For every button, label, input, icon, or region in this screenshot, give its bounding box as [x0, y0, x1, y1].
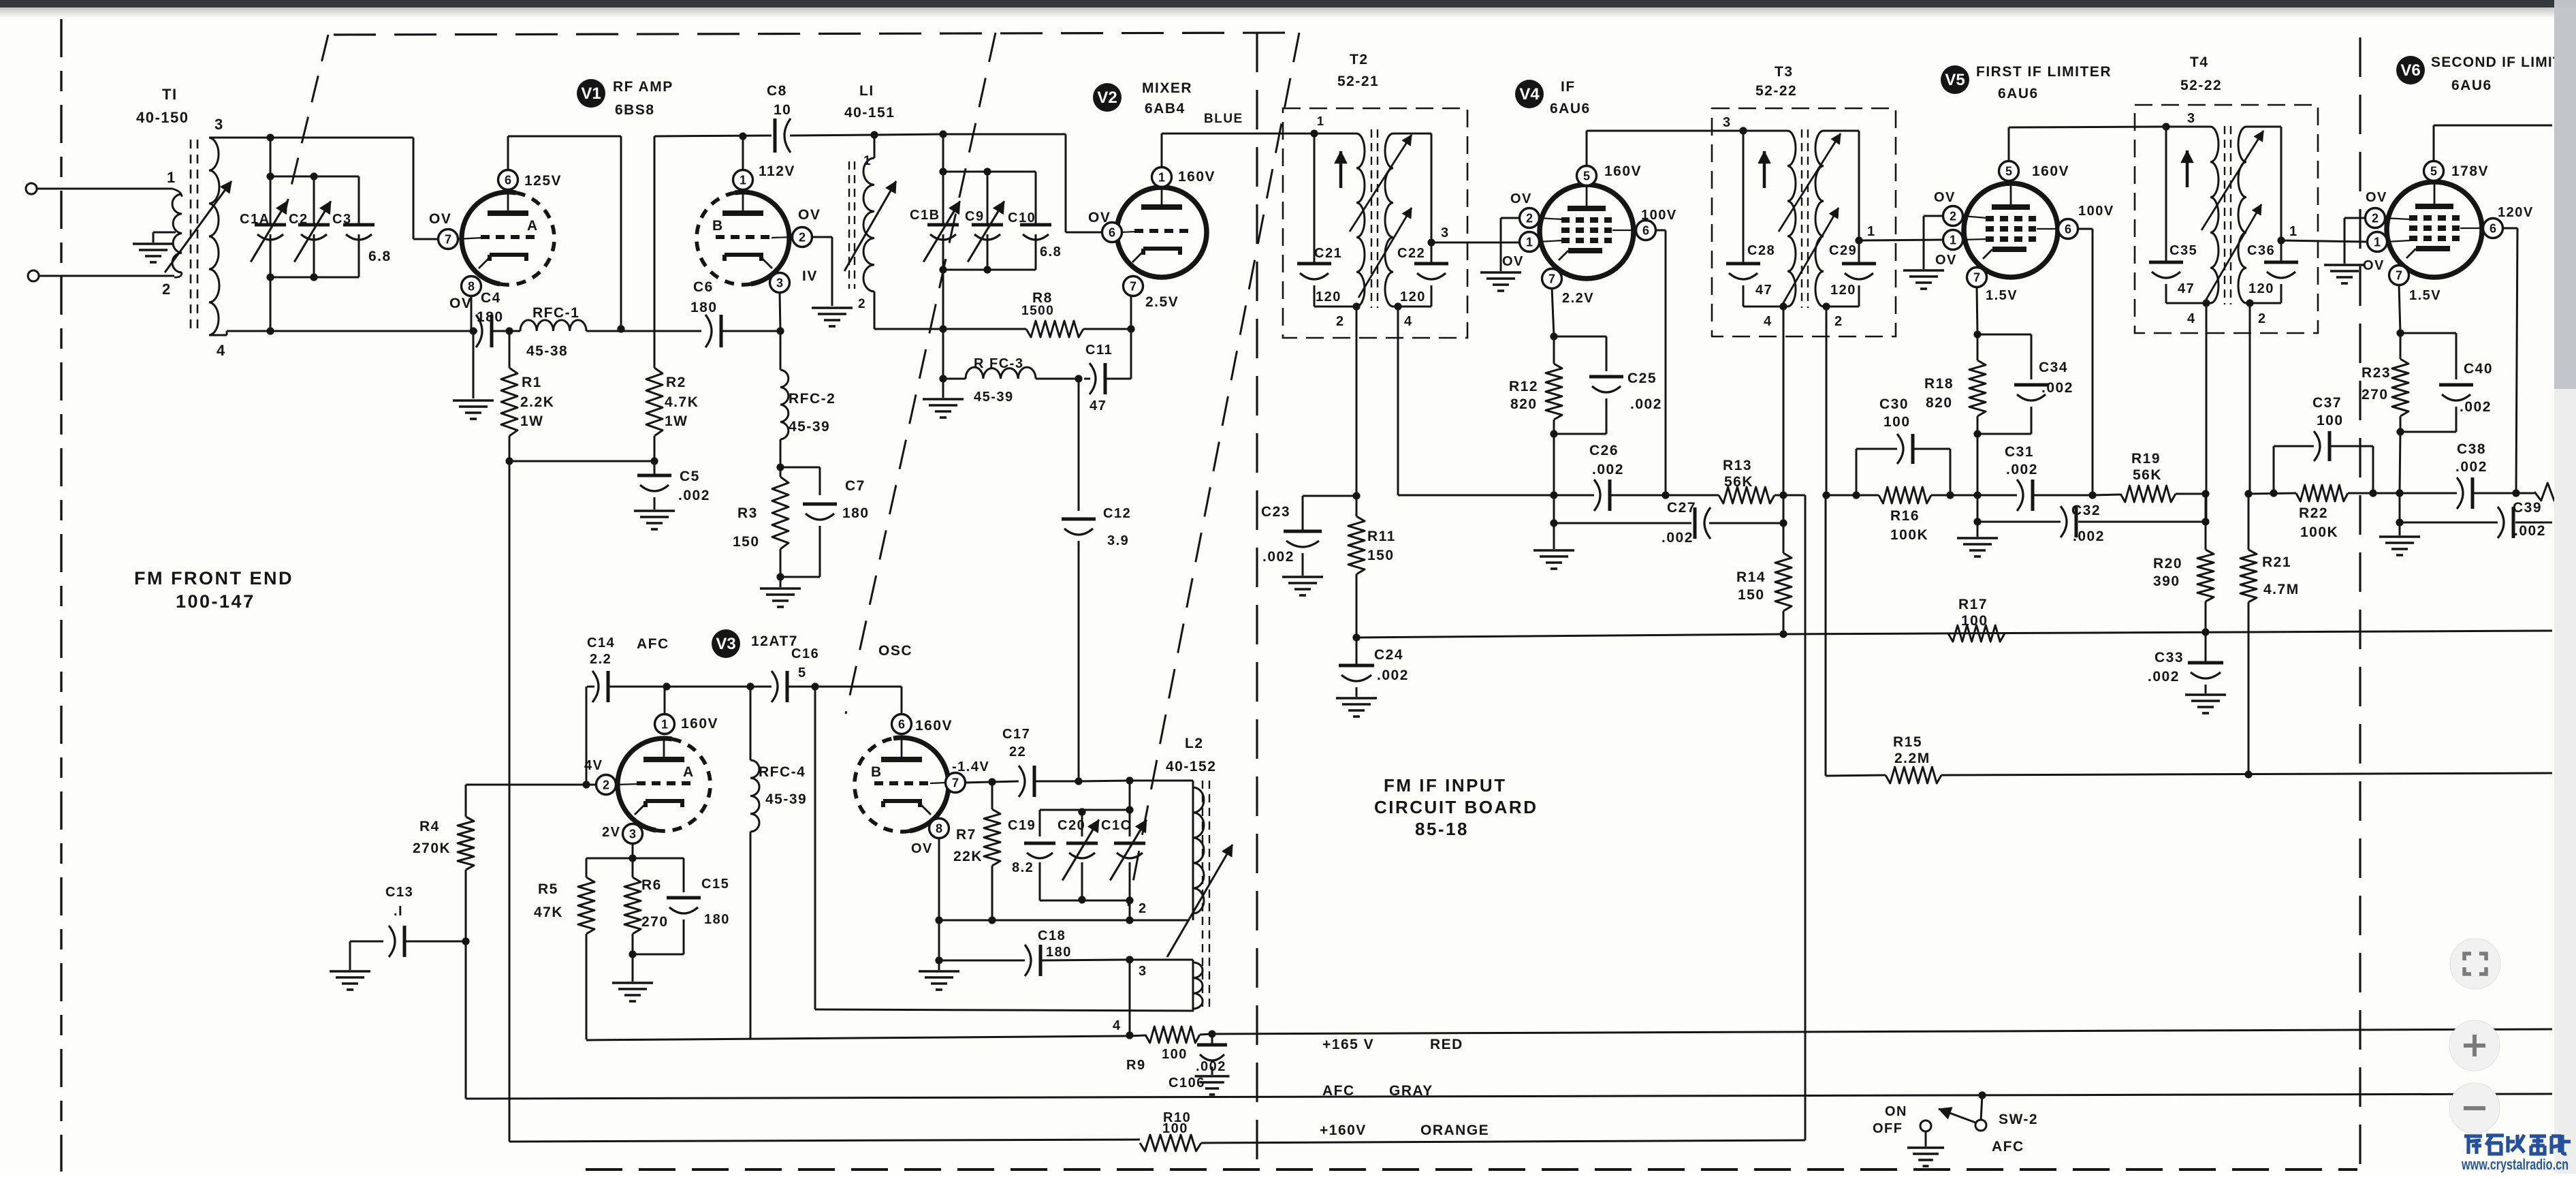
svg-text:.002: .002 [2455, 459, 2487, 475]
pin 5 of V5 [1999, 161, 2019, 181]
svg-text:C34: C34 [2039, 360, 2068, 375]
pin 1 of V6 [2368, 232, 2387, 252]
svg-text:1.5V: 1.5V [2409, 288, 2441, 303]
wire bank bottom down [942, 270, 944, 329]
svg-text:100: 100 [1162, 1121, 1188, 1136]
ground below SW-2 [1907, 1146, 1944, 1149]
ground below R3 [780, 577, 782, 587]
tube V5 [1964, 183, 2058, 277]
svg-text:820: 820 [1510, 396, 1538, 412]
svg-text:OV: OV [449, 296, 472, 311]
svg-text:2: 2 [1526, 212, 1533, 225]
bottom dashed boundary [586, 1168, 2357, 1171]
svg-text:.002: .002 [1377, 668, 1409, 683]
T1 tuning arrow [165, 181, 232, 272]
node R12 top [1550, 332, 1557, 340]
svg-text:OV: OV [2363, 258, 2385, 273]
svg-text:5: 5 [2005, 165, 2012, 178]
svg-text:6BS8: 6BS8 [615, 102, 655, 118]
svg-text:180: 180 [842, 505, 870, 521]
scrollbar track [2554, 0, 2576, 1174]
node R8 right [1127, 325, 1134, 332]
wire grid rail down to V1 pin7 [413, 138, 415, 239]
pin 1 of V2 [1152, 168, 1172, 187]
pin 5 of V6 [2424, 161, 2444, 181]
svg-text:.002: .002 [678, 488, 710, 503]
coil L2 lower winding [1192, 960, 1194, 1011]
svg-text:C1C: C1C [1101, 818, 1132, 833]
svg-text:R14: R14 [1736, 569, 1766, 585]
node T4 pin1 [2277, 236, 2285, 244]
wire R18 bottom down to R16 line [1977, 434, 1979, 495]
svg-text:2: 2 [603, 779, 609, 792]
T4 secondary right side [2280, 127, 2283, 240]
svg-text:+160V: +160V [1320, 1123, 1367, 1138]
svg-text:AFC: AFC [1992, 1139, 2024, 1155]
node C37 right [2369, 489, 2376, 497]
tube V4 badge [1515, 80, 1544, 108]
pin 6 of V4 [1636, 221, 1656, 240]
svg-text:6: 6 [2490, 222, 2496, 236]
V3A grid stub [616, 784, 638, 785]
browser top bar [0, 0, 2554, 7]
svg-text:6: 6 [1109, 226, 1115, 240]
wire V3A plate to C14 node [664, 687, 666, 715]
svg-text:45-38: 45-38 [526, 343, 568, 359]
trimmer bank verticals and bottom wire [942, 172, 944, 225]
svg-text:2: 2 [799, 231, 806, 245]
scrollbar thumb [2554, 7, 2576, 389]
wire T1 pin4 to cathode rail [209, 334, 227, 336]
svg-text:52-22: 52-22 [1755, 83, 1797, 99]
svg-text:C27: C27 [1667, 500, 1696, 516]
svg-text:RED: RED [1430, 1037, 1463, 1052]
node C1B bank top [942, 134, 944, 172]
ground below V1B pin2 [812, 307, 853, 309]
svg-text:ON: ON [1885, 1104, 1907, 1119]
svg-text:GRAY: GRAY [1389, 1083, 1433, 1099]
pin 6 of V5 [2058, 219, 2078, 239]
svg-text:.002: .002 [1630, 396, 1662, 412]
svg-text:.002: .002 [2006, 462, 2038, 477]
node T3 pin2 bottom [1822, 491, 1830, 499]
V1B grid stub [772, 237, 793, 238]
T1 primary center tap wire [153, 232, 176, 234]
pin 8 of V1A [462, 277, 481, 296]
svg-text:C33: C33 [2154, 650, 2184, 665]
ground below V1A cathode [453, 399, 494, 402]
wire V3B grid pin7 to osc line [965, 782, 992, 783]
node C30 right [1946, 491, 1954, 499]
V2 grid stub [1122, 232, 1136, 232]
svg-text:22K: 22K [953, 849, 983, 864]
svg-text:C39: C39 [2513, 500, 2542, 516]
svg-text:LI: LI [859, 83, 874, 99]
svg-text:R11: R11 [1367, 529, 1396, 544]
svg-text:C12: C12 [1103, 506, 1131, 521]
svg-text:1: 1 [2374, 236, 2381, 249]
svg-text:56K: 56K [2133, 467, 2162, 483]
svg-text:150: 150 [1367, 548, 1395, 563]
svg-text:R3: R3 [737, 505, 758, 521]
pin 1 of V4 [1520, 232, 1540, 252]
svg-text:OV: OV [1510, 191, 1532, 206]
svg-text:100: 100 [1883, 414, 1911, 430]
wire pin8 to ground [938, 920, 940, 959]
svg-text:-1.4V: -1.4V [952, 759, 989, 774]
svg-text:C15: C15 [701, 877, 729, 892]
node C32 right [2201, 518, 2209, 525]
T2 pin2 lead down [1356, 307, 1358, 496]
svg-text:1: 1 [661, 718, 668, 732]
svg-text:6: 6 [2065, 223, 2071, 236]
node T2 pin1 blue input [1310, 129, 1318, 137]
svg-text:120: 120 [1830, 283, 1856, 298]
wire V1A cathode to rail [471, 295, 473, 331]
svg-text:.002: .002 [2460, 399, 2492, 415]
pin 6 of V2 [1102, 223, 1122, 242]
svg-text:4: 4 [1113, 1018, 1122, 1033]
wire V5 pin7 down [1977, 286, 1977, 334]
wire +160V bus up to R13 node [1804, 495, 1807, 1140]
svg-text:1: 1 [1526, 236, 1533, 249]
svg-text:45-39: 45-39 [974, 390, 1014, 405]
wire V1B pin2 to ground [811, 236, 832, 238]
svg-text:C9: C9 [965, 209, 985, 224]
node R13 right [1779, 491, 1787, 499]
wire T2 pin4 corner to C26 line [1398, 495, 1554, 497]
svg-text:R19: R19 [2131, 451, 2161, 467]
svg-text:10: 10 [774, 102, 791, 118]
svg-text:.002: .002 [2041, 380, 2073, 396]
svg-text:R2: R2 [666, 375, 686, 390]
svg-text:120: 120 [1400, 289, 1426, 304]
node R16 line right [1973, 491, 1981, 499]
T2 primary winding [1314, 133, 1356, 135]
+160V ORANGE bus wire [509, 1140, 1140, 1142]
svg-text:RFC-1: RFC-1 [532, 305, 579, 321]
wire V6 pin7 down [2399, 284, 2400, 333]
node L2 pin4 on 165V line [1126, 1031, 1133, 1039]
svg-text:C31: C31 [2005, 444, 2034, 460]
svg-text:3: 3 [629, 828, 636, 841]
wire R4 node down to AFC gray bus [465, 941, 467, 1099]
svg-text:.002: .002 [1592, 462, 1624, 477]
svg-text:C35: C35 [2169, 243, 2197, 258]
svg-text:V4: V4 [1519, 85, 1540, 104]
wire C16 grid line [667, 686, 750, 688]
tube V5 badge [1941, 65, 1969, 94]
pin 2 of V3A [597, 775, 616, 795]
svg-text:.002: .002 [2514, 523, 2546, 539]
svg-text:.I: .I [394, 904, 403, 919]
svg-text:C6: C6 [693, 279, 714, 295]
node V6 pin6 bottom [2512, 489, 2519, 497]
V1A grid stub [458, 238, 482, 239]
svg-text:C8: C8 [767, 83, 787, 99]
svg-text:V2: V2 [1097, 89, 1117, 107]
svg-text:C28: C28 [1747, 243, 1775, 258]
svg-text:47: 47 [2178, 281, 2195, 296]
svg-text:V1: V1 [581, 84, 601, 103]
svg-text:C19: C19 [1008, 818, 1036, 833]
T4 pin4 lead down [2206, 303, 2208, 522]
svg-text:1: 1 [1158, 171, 1165, 185]
V3B grid stub [930, 783, 946, 783]
node T2 pin3 [1427, 238, 1435, 246]
svg-text:R18: R18 [1924, 376, 1954, 392]
svg-text:C1B: C1B [910, 208, 940, 223]
ground below C23 [1282, 576, 1323, 578]
node C16 right [811, 682, 818, 690]
svg-text:SW-2: SW-2 [1999, 1112, 2038, 1127]
svg-text:C40: C40 [2464, 361, 2493, 377]
pin 7 of V2 [1124, 277, 1143, 296]
svg-text:R22: R22 [2299, 505, 2328, 521]
node R11 bottom / AGC line left [1352, 633, 1360, 641]
wire C27 line [1550, 519, 1557, 527]
svg-text:1W: 1W [520, 413, 544, 429]
pin 1 of V3A [655, 715, 675, 734]
pin 5 of V4 [1577, 166, 1597, 186]
node C30 left [1852, 491, 1860, 499]
svg-text:390: 390 [2153, 574, 2180, 589]
wire V3A cathode circuit [632, 843, 634, 858]
svg-text:R23: R23 [2362, 365, 2391, 381]
node V3A plate / C14 junction [663, 682, 670, 690]
pin 6 of V3B [892, 715, 912, 734]
pin 1 of V5 [1943, 230, 1963, 250]
svg-text:52-21: 52-21 [1337, 74, 1379, 89]
node R8 line left [939, 325, 947, 332]
T3 primary winding [1743, 130, 1787, 132]
node R12 bottom [1550, 430, 1557, 437]
svg-text:2: 2 [1950, 210, 1956, 223]
svg-text:2: 2 [2258, 311, 2267, 326]
T4 tuning arrows [2201, 131, 2263, 230]
wire C11 to V2 pin7 [1130, 329, 1132, 379]
T2 core [1371, 129, 1372, 308]
ground below V5 pin2 [1903, 269, 1944, 272]
tube V3 triode B [893, 738, 949, 831]
svg-text:270K: 270K [413, 841, 451, 856]
wire V4 pin6 down [1655, 230, 1666, 232]
svg-text:820: 820 [1926, 395, 1953, 411]
svg-text:8: 8 [468, 280, 475, 294]
wire V5 pin2 to ground [1924, 215, 1944, 217]
svg-text:OV: OV [1088, 210, 1111, 225]
T3 secondary winding [1815, 131, 1824, 307]
svg-text:2.2M: 2.2M [1894, 751, 1930, 766]
svg-text:R21: R21 [2262, 554, 2291, 570]
svg-text:100: 100 [2317, 413, 2344, 428]
svg-text:B: B [712, 218, 724, 234]
wire lower rail to L2 bottom [815, 1009, 1194, 1011]
ground below V6 pin2 [2324, 264, 2365, 266]
pin 2 of V1B [793, 227, 812, 247]
node V1B cathode [776, 327, 784, 334]
transformer T4 dashed box [2135, 105, 2318, 333]
svg-text:OV: OV [1502, 254, 1524, 269]
T3 pin2 lead down [1826, 307, 1828, 495]
node R7 top [988, 778, 996, 785]
svg-text:T2: T2 [1350, 52, 1369, 67]
svg-text:C36: C36 [2247, 243, 2275, 258]
node V1A cathode [469, 327, 477, 334]
node L2 pin3 [1126, 956, 1133, 963]
svg-text:OV: OV [911, 841, 933, 856]
svg-text:1: 1 [1317, 114, 1325, 128]
svg-text:85-18: 85-18 [1415, 819, 1469, 839]
svg-text:C5: C5 [680, 469, 700, 484]
wire C16 node down to lower rail [814, 687, 816, 1009]
svg-text:2: 2 [162, 281, 172, 298]
node T2 pin2 [1352, 302, 1360, 310]
svg-text:2: 2 [2372, 212, 2379, 225]
wire V4 plate to T3 [1586, 131, 1588, 167]
svg-text:1.5V: 1.5V [1986, 288, 2018, 303]
transformer T1 secondary winding [209, 138, 219, 335]
svg-text:160V: 160V [1604, 163, 1642, 179]
wire V5 pin6 down [2077, 228, 2093, 230]
svg-text:160V: 160V [681, 716, 718, 732]
svg-text:AFC: AFC [1322, 1083, 1355, 1099]
svg-text:www.crystalradio.cn: www.crystalradio.cn [2461, 1156, 2569, 1173]
T2 tuning arrows [1350, 135, 1412, 232]
svg-text:100K: 100K [2300, 524, 2338, 540]
ground below R18 line node [1977, 522, 1979, 537]
node V5 pin6 bottom [2088, 491, 2096, 499]
svg-text:3: 3 [2187, 111, 2196, 126]
wire V3A grid to R4 [586, 784, 597, 786]
svg-text:RF AMP: RF AMP [613, 79, 673, 95]
svg-text:6AU6: 6AU6 [1550, 101, 1591, 116]
pin 6 of V1A [498, 170, 518, 190]
tube V2 badge [1093, 83, 1122, 112]
svg-text:C11: C11 [1085, 343, 1113, 358]
ground below C33 [2185, 693, 2226, 696]
wire pin2 line of L2 [939, 920, 1130, 922]
svg-text:R5: R5 [538, 881, 558, 897]
node RFC-4 top [746, 682, 754, 690]
node T3 pin4 [1779, 302, 1787, 310]
wire V2 plate up to BLUE wire [1161, 134, 1163, 168]
pin 8 of V3B [929, 819, 949, 838]
wire L2 pin3 node down to pin4 node [1129, 960, 1131, 1035]
svg-text:180: 180 [704, 912, 730, 927]
T2 secondary right side [1431, 134, 1433, 242]
L2 tuning arrow [1167, 845, 1233, 957]
FM IF board diagonal dashed boundary [1128, 33, 1299, 906]
V4 pin stubs [1538, 218, 1563, 219]
node C106 junction [1200, 1034, 1212, 1035]
tube V3 triode A [618, 738, 672, 830]
node R2 bottom [650, 457, 658, 465]
pin 7 of V1A [439, 230, 458, 249]
svg-text:FIRST IF LIMITER: FIRST IF LIMITER [1976, 64, 2112, 80]
node R23 bottom [2396, 428, 2404, 435]
svg-text:2.2K: 2.2K [520, 394, 554, 410]
node C37 left [2270, 489, 2277, 497]
wire T1 pin3 to grid rail [209, 137, 413, 139]
pin 6 of V6 [2483, 219, 2503, 238]
pin 7 of V6 [2389, 266, 2409, 285]
T1 center tap ground [133, 242, 174, 245]
svg-text:4: 4 [2187, 311, 2196, 326]
svg-text:R6: R6 [641, 877, 662, 893]
svg-text:R1: R1 [522, 375, 542, 390]
svg-text:AFC: AFC [637, 636, 669, 652]
svg-text:6AU6: 6AU6 [1998, 86, 2039, 101]
svg-text:B: B [871, 764, 882, 780]
T3 pin4 feed jog [1783, 495, 1805, 497]
AFC GRAY bus wire [466, 1094, 2552, 1099]
svg-text:BLUE: BLUE [1204, 112, 1243, 126]
svg-text:5: 5 [1583, 170, 1590, 183]
wire R1 node down to +160V bus [509, 461, 511, 1142]
wire V3B plate [901, 687, 903, 715]
node pin8 line [935, 916, 942, 924]
node T4 pin2 [2246, 299, 2253, 307]
watermark crystalradio logo [2464, 1135, 2571, 1154]
svg-text:C4: C4 [481, 290, 501, 306]
svg-text:270: 270 [641, 914, 669, 930]
svg-text:RFC-4: RFC-4 [759, 764, 806, 780]
+165V RED bus wire right part [1212, 1029, 2552, 1034]
wire V6 plate up and right [2433, 125, 2435, 162]
FM front end board left dashed boundary [60, 19, 62, 1172]
zoom reset button [2450, 939, 2500, 989]
svg-text:IV: IV [802, 268, 818, 284]
T4 primary winding [2166, 126, 2210, 128]
FM front end board top dashed boundary [334, 33, 1297, 35]
svg-text:7: 7 [1548, 272, 1555, 286]
wire V5 plate to T4 [2008, 127, 2010, 162]
svg-text:FM IF INPUT: FM IF INPUT [1384, 775, 1507, 796]
svg-text:7: 7 [1973, 271, 1980, 285]
svg-text:6.8: 6.8 [368, 249, 392, 264]
node C26 line left [1550, 491, 1557, 499]
svg-text:2: 2 [858, 297, 866, 311]
svg-text:R4: R4 [419, 819, 440, 834]
svg-text:150: 150 [733, 534, 760, 550]
svg-text:2.2: 2.2 [590, 652, 611, 667]
node C4 right [505, 327, 513, 334]
svg-text:160V: 160V [915, 718, 953, 734]
svg-text:TI: TI [162, 86, 178, 103]
zoom out button [2449, 1083, 2500, 1133]
wire V6 pin6 down [2502, 227, 2517, 230]
svg-text:120V: 120V [2498, 205, 2534, 220]
node T4 pin4 [2202, 299, 2210, 307]
node T3 pin3 [1739, 127, 1747, 134]
ground below RFC-3 node [942, 379, 944, 398]
svg-text:4: 4 [1764, 314, 1772, 329]
svg-text:47K: 47K [534, 905, 563, 920]
ground below C106 [1195, 1075, 1230, 1078]
svg-text:R13: R13 [1723, 458, 1752, 473]
node T1 pin3 junction [266, 134, 274, 141]
pin 2 of V6 [2366, 208, 2385, 228]
svg-text:5: 5 [798, 665, 807, 680]
ground below V3B pin8 [938, 960, 940, 970]
svg-text:C16: C16 [791, 646, 819, 661]
svg-text:8: 8 [936, 822, 942, 836]
svg-text:C17: C17 [1002, 727, 1030, 742]
wire V4 pin7 down [1552, 287, 1554, 336]
svg-text:120: 120 [2248, 281, 2274, 296]
svg-text:IF: IF [1561, 79, 1576, 95]
